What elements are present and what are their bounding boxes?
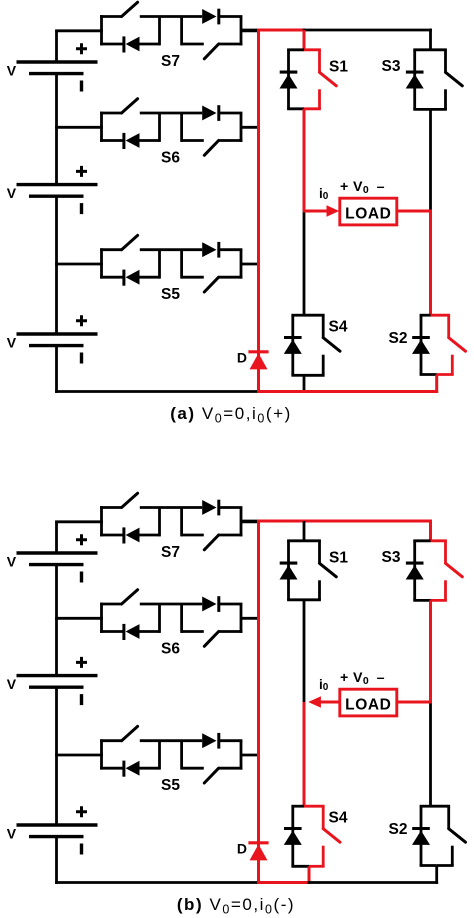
anti-parallel diode of S3 (fig a) <box>406 71 424 74</box>
switch S4 (fig a) <box>284 315 340 375</box>
top rail wire, black segment (fig b) <box>241 520 260 523</box>
wire: battery stack to switch S7 input (fig a) <box>55 29 103 32</box>
wire: top rail down to S1 (fig b) <box>303 521 306 541</box>
svg-text:+ V0–: + V0– <box>340 670 385 687</box>
svg-text:V: V <box>7 185 17 201</box>
battery V (cell 2, fig b) <box>17 676 98 688</box>
bottom rail wire, black segment to S2 (fig b) <box>308 881 439 884</box>
bidirectional switch S5 (fig a) <box>100 235 242 292</box>
bidirectional switch S5 (fig b) <box>100 726 242 783</box>
right leg top wire, red (fig b) <box>429 520 432 541</box>
wire: battery stack to switch S5 input (fig b) <box>55 754 103 757</box>
battery plus terminal label (cell 1, fig a) <box>76 43 87 54</box>
clamp bus vertical wire (red) (fig a) <box>257 29 260 393</box>
battery V (cell 1, fig a) <box>17 62 98 74</box>
battery plus terminal label (cell 1, fig b) <box>76 534 87 545</box>
svg-text:+ V0–: + V0– <box>340 179 385 196</box>
bidirectional switch S6 (fig a) <box>100 99 242 156</box>
anti-parallel diode of S2 (fig a) <box>412 336 430 339</box>
anti-parallel diode of S3 (fig b) <box>406 562 424 565</box>
wire: load junction down to S2 (fig b) <box>429 702 432 806</box>
svg-text:S7: S7 <box>161 53 180 70</box>
switch S3 (fig b) <box>406 541 463 601</box>
wire: S2 down to bottom rail (fig b) <box>435 866 438 884</box>
battery plus terminal label (cell 2, fig b) <box>76 657 87 668</box>
svg-text:S1: S1 <box>329 549 348 566</box>
battery stack vertical wire (fig b) <box>55 522 58 884</box>
bidirectional switch S6 (fig b) <box>100 590 242 647</box>
wire: battery stack to switch S7 input (fig b) <box>55 520 103 523</box>
wire: switch S7 output stub to bus (fig a) <box>241 29 260 32</box>
svg-text:S7: S7 <box>161 544 180 561</box>
battery stack vertical wire (fig a) <box>55 31 58 393</box>
anti-parallel diode of S4 (fig a) <box>284 336 302 339</box>
battery minus terminal label (cell 2, fig a) <box>80 203 83 214</box>
wire: S3 down to load junction (fig a) <box>429 109 432 211</box>
svg-text:V: V <box>7 63 17 79</box>
switch contact of S3 (fig a) <box>444 50 447 73</box>
switch S1 (fig b) <box>280 541 337 600</box>
battery plus terminal label (cell 3, fig a) <box>76 315 87 326</box>
battery plus terminal label (cell 2, fig a) <box>76 166 87 177</box>
battery minus terminal label (cell 1, fig b) <box>80 572 83 583</box>
battery minus terminal label (cell 3, fig a) <box>80 353 83 364</box>
svg-text:V: V <box>7 554 17 570</box>
top rail wire, red segment to S1 leg (fig a) <box>257 29 305 32</box>
switch contact of S1 (fig a) <box>318 50 321 73</box>
clamp bus vertical wire (red) (fig b) <box>257 520 260 884</box>
anti-parallel diode of S4 (fig b) <box>284 827 302 830</box>
battery minus terminal label (cell 2, fig b) <box>80 694 83 705</box>
battery V (cell 3, fig a) <box>17 334 98 346</box>
battery V (cell 1, fig b) <box>17 553 98 565</box>
bidirectional switch S7 (fig b) <box>100 493 242 550</box>
wire: switch S5 output stub to bus (fig b) <box>241 754 260 757</box>
battery minus terminal label (cell 1, fig a) <box>80 81 83 92</box>
wire: top rail down to S1 (fig a) <box>303 30 306 50</box>
switch S3 (fig a) <box>406 50 463 110</box>
svg-text:D: D <box>237 350 247 366</box>
svg-text:(a) V0=0,i0(+): (a) V0=0,i0(+) <box>170 404 292 426</box>
svg-text:(b) V0=0,i0(-): (b) V0=0,i0(-) <box>177 895 295 917</box>
wire: S4 down to bottom rail (fig a) <box>303 375 306 393</box>
wire: S2 down to bottom rail (fig a) <box>435 375 438 393</box>
load box (fig a) <box>340 198 397 225</box>
clamp diode D (fig b) <box>248 843 268 861</box>
anti-parallel diode of S1 (fig a) <box>280 71 298 74</box>
switch contact of S4 (fig b) <box>322 806 325 829</box>
svg-text:D: D <box>237 841 247 857</box>
svg-text:V: V <box>7 676 17 692</box>
svg-text:S1: S1 <box>329 58 348 75</box>
svg-text:S3: S3 <box>382 549 401 566</box>
wire: battery stack to switch S6 input (fig b) <box>55 617 103 620</box>
wire: switch S7 output stub to bus (fig b) <box>241 520 260 523</box>
wire: S1 down to load junction (fig a) <box>303 109 306 211</box>
wire: S3 down to load junction (fig b) <box>429 600 432 702</box>
svg-text:LOAD: LOAD <box>345 697 391 714</box>
svg-text:S4: S4 <box>329 809 348 826</box>
svg-text:S3: S3 <box>382 58 401 75</box>
battery plus terminal label (cell 3, fig b) <box>76 806 87 817</box>
switch contact of S4 (fig a) <box>322 315 325 338</box>
clamp diode D (fig a) <box>248 352 268 370</box>
switch contact of S1 (fig b) <box>318 541 321 564</box>
anti-parallel diode of S1 (fig b) <box>280 562 298 565</box>
bottom rail wire, red segment (fig b) <box>257 881 310 884</box>
bottom rail wire, black segment from stack (fig b) <box>55 881 260 884</box>
wire: S4 down to bottom rail (fig b) <box>308 866 311 884</box>
switch S1 (fig a) <box>280 50 337 109</box>
svg-text:V: V <box>7 335 17 351</box>
switch S4 (fig b) <box>284 806 340 866</box>
svg-text:S5: S5 <box>161 286 180 303</box>
wire: load junction down to S4 (fig a) <box>303 211 306 315</box>
current arrow i0 pointing left out of load (fig b) <box>320 701 341 704</box>
battery V (cell 2, fig a) <box>17 185 98 197</box>
current arrow i0 pointing right into load (fig a) <box>303 210 328 213</box>
wire: switch S6 output stub to bus (fig a) <box>241 126 260 129</box>
wire: switch S5 output stub to bus (fig a) <box>241 263 260 266</box>
top rail wire, black segment to right leg (fig a) <box>303 29 432 32</box>
battery minus terminal label (cell 3, fig b) <box>80 844 83 855</box>
wire: battery stack to switch S5 input (fig a) <box>55 263 103 266</box>
svg-text:V: V <box>7 826 17 842</box>
battery V (cell 3, fig b) <box>17 825 98 837</box>
right leg top wire (fig a) <box>429 29 432 50</box>
bottom rail wire, black segment from stack (fig a) <box>55 390 260 393</box>
switch contact of S2 (fig a) <box>447 315 450 338</box>
switch S2 (fig a) <box>412 315 466 374</box>
bottom rail wire, red segment (fig a) <box>257 390 438 393</box>
load box (fig b) <box>340 689 397 716</box>
top rail wire, red segment (fig b) <box>257 520 432 523</box>
svg-text:S4: S4 <box>329 318 348 335</box>
wire: switch S6 output stub to bus (fig b) <box>241 617 260 620</box>
wire: S1 down to load junction (fig b) <box>303 600 306 702</box>
anti-parallel diode of S2 (fig b) <box>412 827 430 830</box>
svg-text:S2: S2 <box>389 821 408 838</box>
bidirectional switch S7 (fig a) <box>100 2 242 59</box>
svg-text:S5: S5 <box>161 777 180 794</box>
svg-text:LOAD: LOAD <box>345 206 391 223</box>
switch S2 (fig b) <box>412 806 466 865</box>
svg-text:S6: S6 <box>161 640 180 657</box>
svg-text:S2: S2 <box>389 330 408 347</box>
top rail wire, black segment (fig a) <box>241 29 260 32</box>
switch contact of S3 (fig b) <box>444 541 447 564</box>
switch contact of S2 (fig b) <box>447 806 450 829</box>
wire: load to right leg (fig b) <box>397 701 432 704</box>
wire: load to right leg (fig a) <box>397 210 432 213</box>
wire: load junction down to S2 (fig a) <box>429 211 432 315</box>
wire: load junction down to S4 (fig b) <box>303 702 306 806</box>
svg-text:S6: S6 <box>161 149 180 166</box>
wire: battery stack to switch S6 input (fig a) <box>55 126 103 129</box>
